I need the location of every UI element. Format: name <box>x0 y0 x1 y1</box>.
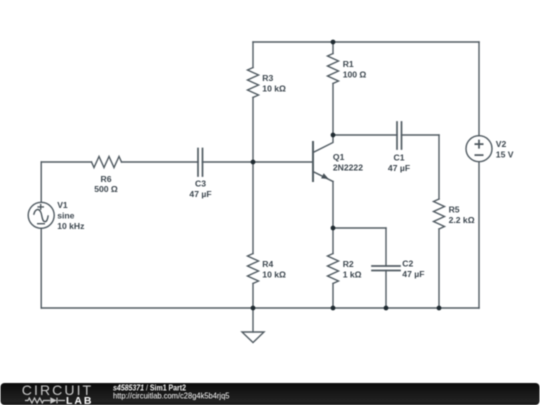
svg-text:10 kΩ: 10 kΩ <box>262 269 286 279</box>
svg-text:V2: V2 <box>496 139 507 149</box>
svg-text:R2: R2 <box>343 259 354 269</box>
svg-text:47 µF: 47 µF <box>189 189 211 199</box>
svg-text:C2: C2 <box>402 259 413 269</box>
svg-text:47 µF: 47 µF <box>402 269 424 279</box>
svg-text:sine: sine <box>57 210 74 220</box>
svg-text:R1: R1 <box>343 59 354 69</box>
svg-text:1 kΩ: 1 kΩ <box>343 269 362 279</box>
svg-text:R6: R6 <box>101 174 112 184</box>
svg-text:C1: C1 <box>394 153 405 163</box>
svg-text:2N2222: 2N2222 <box>333 162 363 172</box>
svg-text:100 Ω: 100 Ω <box>343 69 367 79</box>
svg-text:V1: V1 <box>57 200 68 210</box>
svg-text:500 Ω: 500 Ω <box>94 184 118 194</box>
svg-text:R5: R5 <box>449 205 460 215</box>
svg-text:15 V: 15 V <box>496 149 514 159</box>
svg-text:LAB: LAB <box>66 395 92 405</box>
svg-text:2.2 kΩ: 2.2 kΩ <box>449 215 475 225</box>
svg-text:10 kΩ: 10 kΩ <box>262 83 286 93</box>
svg-text:http://circuitlab.com/c28g4k5b: http://circuitlab.com/c28g4k5b4rjq5 <box>113 391 230 400</box>
svg-text:R4: R4 <box>262 259 273 269</box>
svg-text:R3: R3 <box>262 73 273 83</box>
svg-text:47 µF: 47 µF <box>388 163 410 173</box>
svg-text:10 kHz: 10 kHz <box>57 221 84 231</box>
svg-text:Q1: Q1 <box>333 152 345 162</box>
svg-text:C3: C3 <box>195 178 206 188</box>
